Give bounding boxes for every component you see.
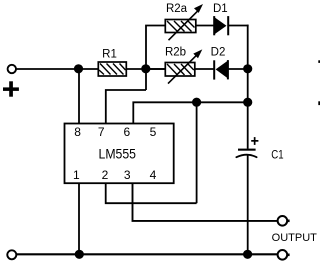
resistor R1 — [98, 62, 126, 76]
wire D2 to node B — [228, 68, 248, 70]
wire R2b to D2 — [195, 68, 214, 70]
junction node A (R1/R2b/pin7) — [141, 64, 150, 73]
label LM555 — [99, 146, 137, 161]
terminal V+ input — [8, 65, 16, 73]
terminal ground input — [7, 250, 16, 259]
wire pin 8 riser — [78, 69, 80, 124]
node edge mark upper — [318, 60, 320, 63]
terminal output bottom — [278, 250, 290, 260]
diode D2 — [214, 60, 228, 80]
pin 2 — [102, 168, 109, 182]
plus polarity symbol — [3, 81, 19, 96]
svg-text:4: 4 — [150, 168, 157, 182]
svg-text:D2: D2 — [211, 47, 226, 59]
svg-text:1: 1 — [73, 168, 80, 182]
capacitor C1 — [236, 137, 258, 157]
terminal output top — [278, 216, 290, 226]
svg-text:C1: C1 — [271, 147, 284, 161]
pin 1 — [73, 168, 80, 182]
svg-text:3: 3 — [124, 168, 131, 182]
junction threshold at node B column — [243, 98, 252, 107]
label D1 — [213, 3, 228, 15]
op-amp U1 LM555 IC body — [65, 124, 174, 184]
wire R2a to D1 — [196, 25, 214, 27]
diode D1 — [214, 16, 228, 35]
svg-text:LM555: LM555 — [99, 146, 137, 161]
svg-text:R2b: R2b — [165, 46, 186, 58]
pin 7 — [98, 125, 105, 139]
label D2 — [211, 47, 226, 59]
pin 8 — [74, 125, 81, 139]
wire node B column upper (top row to C1 top plate) — [247, 25, 249, 149]
wire ground rail — [16, 253, 277, 255]
svg-text:5: 5 — [150, 125, 157, 139]
wire pin 3 output step — [133, 183, 278, 221]
wire node A to R2b — [146, 68, 165, 70]
pin 3 — [124, 168, 131, 182]
junction threshold/trigger tie — [192, 98, 201, 107]
label OUTPUT — [272, 232, 318, 244]
wire pin 7 discharge step — [106, 90, 146, 124]
wire pin 1 to ground rail — [78, 183, 80, 254]
pin 4 — [150, 168, 157, 182]
svg-text:D1: D1 — [213, 3, 228, 15]
svg-text:OUTPUT: OUTPUT — [272, 232, 318, 244]
potentiometer R2b — [165, 49, 202, 83]
junction ground at C1 column — [243, 250, 252, 259]
pin 5 — [150, 125, 157, 139]
svg-text:R1: R1 — [102, 49, 117, 61]
potentiometer R2a — [165, 4, 203, 40]
label R2b — [165, 46, 186, 58]
wire node A riser to top row — [146, 26, 165, 91]
label R2a — [166, 3, 188, 15]
wire trigger column — [196, 102, 198, 203]
svg-text:8: 8 — [74, 125, 81, 139]
junction ground at pin 1 — [75, 250, 84, 259]
wire R1 to node A — [126, 68, 165, 70]
node edge mark lower — [318, 101, 320, 105]
wire pin 6 threshold step — [133, 102, 247, 123]
wire D1 to node B top corner — [228, 25, 248, 27]
svg-text:2: 2 — [102, 168, 109, 182]
svg-text:6: 6 — [123, 125, 130, 139]
label R1 — [102, 49, 117, 61]
svg-text:R2a: R2a — [166, 3, 188, 15]
wire node B column lower (C1 bottom to ground rail) — [247, 156, 249, 255]
junction Vcc node at pin 8 riser — [74, 64, 83, 73]
wire pin 2 trigger step — [106, 183, 197, 203]
svg-text:7: 7 — [98, 125, 105, 139]
junction node B at D2 cathode column — [243, 64, 252, 73]
wire input terminal to R1 — [16, 68, 98, 70]
label C1 — [271, 147, 284, 161]
pin 6 — [123, 125, 130, 139]
